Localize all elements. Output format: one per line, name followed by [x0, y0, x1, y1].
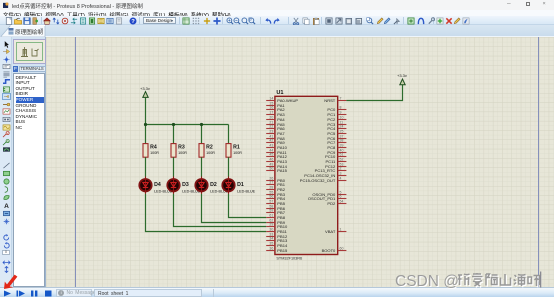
- svg-text:?: ?: [131, 19, 135, 25]
- LED D1: [222, 177, 234, 194]
- wire rail to resistor R3: [173, 125, 175, 144]
- svg-text:57: 57: [269, 200, 273, 204]
- U1 left pin names: [277, 98, 298, 253]
- mouse cursor arrow: [2, 272, 20, 291]
- resistor R1 value 100R: [233, 151, 242, 155]
- tab bar: [0, 25, 554, 37]
- svg-text:43: 43: [269, 144, 273, 148]
- wire U1 NRST to right +3.3v terminal: [346, 85, 402, 101]
- resistor R2 value 100R: [206, 151, 215, 155]
- wire rail to resistor R1: [228, 125, 230, 144]
- U1 reference designator label: [276, 90, 283, 96]
- wire left terminal to rail: [145, 97, 147, 124]
- svg-text:2: 2: [340, 167, 342, 171]
- svg-text:34: 34: [269, 237, 273, 241]
- svg-text:14: 14: [269, 97, 273, 101]
- svg-text:56: 56: [269, 195, 273, 199]
- resistor R4 label: [150, 145, 157, 151]
- U1 left pin stubs PA0-PA15, PB0-PB15: [266, 101, 275, 251]
- wire LED D3 to U1 PB10: [174, 194, 267, 227]
- canvas grid background: [46, 37, 554, 287]
- svg-text:24: 24: [340, 125, 344, 129]
- wire resistor R2 to LED D2: [201, 157, 203, 176]
- svg-text:R1: R1: [233, 145, 240, 151]
- P button + header: [13, 66, 19, 72]
- LED D4 label: [154, 182, 161, 188]
- svg-text:17: 17: [269, 111, 273, 115]
- svg-text:+3.3v: +3.3v: [397, 73, 407, 78]
- status bar: [0, 287, 554, 297]
- U1 right pin stubs NRST, PC0-PC15, PD0-PD2, VBAT, BOOT0: [338, 101, 347, 251]
- svg-text:PD2: PD2: [327, 201, 336, 206]
- svg-text:100R: 100R: [233, 151, 242, 155]
- object selector panel: [12, 37, 46, 287]
- IC U1 STM32F103R6 body: [275, 96, 338, 254]
- wire rail to resistor R2: [201, 125, 203, 144]
- svg-text:CSDN @: CSDN @: [395, 273, 459, 290]
- wire resistor R3 to LED D3: [173, 157, 175, 176]
- wire LED D2 to U1 PB9: [202, 194, 267, 223]
- svg-text:51: 51: [340, 153, 344, 157]
- svg-text:36: 36: [269, 247, 273, 251]
- LED D4: [139, 177, 151, 194]
- svg-text:59: 59: [269, 209, 273, 213]
- svg-text:NRST: NRST: [324, 98, 336, 103]
- toolbar: [0, 16, 554, 25]
- svg-text:52: 52: [340, 158, 344, 162]
- svg-text:50: 50: [269, 167, 273, 171]
- svg-text:9: 9: [340, 111, 342, 115]
- svg-text:U1: U1: [276, 90, 283, 96]
- svg-text:100R: 100R: [206, 151, 215, 155]
- svg-text:D1: D1: [237, 182, 244, 188]
- watermark: [395, 271, 547, 291]
- svg-text:PA15: PA15: [277, 168, 287, 173]
- wire LED D1 to U1 PB8: [229, 194, 267, 218]
- junction dot rail/R2: [200, 123, 203, 126]
- svg-text:8: 8: [340, 106, 342, 110]
- LED D1 label: [237, 182, 244, 188]
- svg-text:28: 28: [269, 186, 273, 190]
- svg-text:27: 27: [269, 181, 273, 185]
- resistor R2: [199, 144, 204, 158]
- svg-text:3: 3: [340, 172, 342, 176]
- svg-text:4: 4: [340, 177, 342, 181]
- svg-text:VBAT: VBAT: [325, 229, 336, 234]
- svg-text:+3.3v: +3.3v: [140, 86, 150, 91]
- U1 right pin numbers: [340, 97, 344, 251]
- svg-text:22: 22: [269, 125, 273, 129]
- svg-text:23: 23: [269, 130, 273, 134]
- resistor R1: [226, 144, 231, 158]
- svg-text:10: 10: [340, 116, 344, 120]
- wire resistor R1 to LED D1: [228, 157, 230, 176]
- svg-text:PC15-OSC32_OUT: PC15-OSC32_OUT: [300, 178, 336, 183]
- LED D3 value LED-BLUE: [182, 189, 201, 193]
- resistor R4 value 100R: [150, 151, 159, 155]
- svg-text:100R: 100R: [150, 151, 159, 155]
- svg-text:6: 6: [340, 195, 342, 199]
- left tool column: [0, 37, 12, 287]
- U1 value label STM32F103R6: [276, 257, 302, 261]
- resistor R3 label: [178, 145, 185, 151]
- svg-text:D2: D2: [210, 182, 217, 188]
- svg-text:46: 46: [269, 158, 273, 162]
- svg-text:60: 60: [340, 247, 344, 251]
- U1 right pin names: [300, 98, 336, 253]
- svg-text:STM32F103R6: STM32F103R6: [276, 257, 302, 261]
- +3.3v label (right terminal): [397, 73, 407, 78]
- svg-text:R3: R3: [178, 145, 185, 151]
- title bar: [0, 0, 554, 10]
- svg-text:29: 29: [269, 223, 273, 227]
- LED D1 value LED-BLUE: [237, 189, 256, 193]
- svg-text:BOOT0: BOOT0: [322, 248, 336, 253]
- U1 left pin numbers: [269, 97, 273, 251]
- svg-text:D4: D4: [154, 182, 161, 188]
- resistor R3 value 100R: [178, 151, 187, 155]
- LED D2 value LED-BLUE: [210, 189, 229, 193]
- svg-text:45: 45: [269, 153, 273, 157]
- wire rail to resistor R4: [145, 125, 147, 144]
- svg-text:42: 42: [269, 139, 273, 143]
- svg-text:35: 35: [269, 242, 273, 246]
- svg-text:30: 30: [269, 228, 273, 232]
- resistor R3: [171, 144, 176, 158]
- svg-text:54: 54: [340, 200, 344, 204]
- junction dot rail/R4: [144, 123, 147, 126]
- list box: [13, 73, 45, 287]
- LED D2: [195, 177, 207, 194]
- svg-text:D3: D3: [182, 182, 189, 188]
- svg-text:LED-BLUE: LED-BLUE: [237, 189, 256, 193]
- power terminal +3.3v (right): [400, 79, 405, 85]
- +3.3v label (left terminal): [140, 86, 150, 91]
- sheet border right: [538, 37, 539, 287]
- svg-text:PB15: PB15: [277, 248, 288, 253]
- svg-text:R4: R4: [150, 145, 157, 151]
- svg-text:100R: 100R: [178, 151, 187, 155]
- preview box: [13, 39, 46, 64]
- wire LED D4 to U1 PB11: [146, 194, 267, 232]
- svg-text:16: 16: [269, 106, 273, 110]
- power terminal +3.3v (left): [143, 92, 148, 98]
- svg-text:20: 20: [269, 116, 273, 120]
- svg-text:7: 7: [340, 97, 342, 101]
- LED D4 value LED-BLUE: [154, 189, 173, 193]
- svg-text:A: A: [4, 203, 9, 209]
- wire horizontal +3.3v rail: [146, 124, 229, 126]
- bottom strip: [0, 292, 554, 297]
- svg-text:61: 61: [269, 214, 273, 218]
- LED D2 label: [210, 182, 217, 188]
- svg-text:R2: R2: [206, 145, 213, 151]
- svg-text:25: 25: [340, 130, 344, 134]
- svg-text:38: 38: [340, 139, 344, 143]
- wire resistor R4 to LED D4: [145, 157, 147, 176]
- resistor R2 label: [206, 145, 213, 151]
- menu bar: [0, 10, 554, 16]
- resistor R4: [143, 144, 148, 158]
- LED D3: [167, 177, 179, 194]
- sheet border left: [75, 37, 76, 287]
- svg-text:1: 1: [340, 228, 342, 232]
- junction dot rail/R3: [172, 123, 175, 126]
- svg-text:39: 39: [340, 144, 344, 148]
- LED D3 label: [182, 182, 189, 188]
- resistor R1 label: [233, 145, 240, 151]
